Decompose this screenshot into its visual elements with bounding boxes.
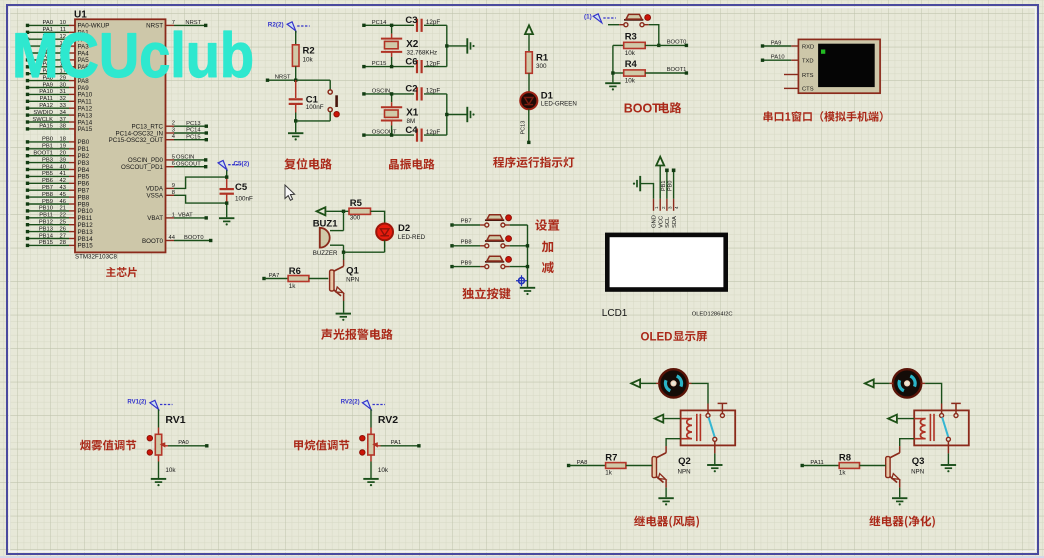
serial terminal window (virtual terminal) [798,39,880,93]
svg-text:R4: R4 [625,59,638,70]
svg-text:LED-GREEN: LED-GREEN [541,100,577,107]
wire arrow to motor [875,382,894,384]
potentiometer RV1 10k [147,409,186,478]
svg-text:45: 45 [60,192,66,198]
wire power to R5 with junction [326,210,349,213]
svg-text:33: 33 [60,103,66,109]
svg-text:BOOT0: BOOT0 [142,238,164,245]
relay R8 box [914,410,969,445]
power arrow (left) for relay coil [888,415,897,423]
svg-text:VSSA: VSSA [146,193,163,200]
svg-text:19: 19 [60,144,66,150]
capacitor C4 12pF (bottom) [405,125,446,142]
svg-text:CTS: CTS [802,87,814,93]
svg-text:X2: X2 [406,39,419,50]
svg-text:PB11: PB11 [39,213,53,219]
U1 left pins PA0-PA15: stubs, wires, net labels, pin numbers [26,20,110,133]
svg-text:SCL: SCL [665,216,671,228]
wire right vertical + junction [445,94,466,135]
wire VDDA pin 9 to C5 top node [174,177,227,188]
crystal X1 8M [381,92,419,137]
svg-text:46: 46 [60,199,66,205]
resistor R3 10k [613,31,688,57]
origin marker (blue crosshair) [516,275,527,286]
wire collector node row [342,251,385,254]
U1 left pins PB0-PB15: stubs, wires, net labels, pin numbers [26,137,93,250]
svg-text:PC13: PC13 [521,121,527,135]
svg-text:PA8: PA8 [577,460,588,466]
label BOOT电路 [624,101,682,115]
svg-text:PA11: PA11 [810,460,823,466]
svg-text:PB1: PB1 [42,144,53,150]
capacitor C6 12pF (bottom) [405,56,446,73]
svg-text:Q3: Q3 [912,456,925,467]
node NRST of reset circuit [266,75,330,82]
wire keys common bus [526,225,529,287]
svg-text:R8: R8 [839,452,851,463]
transistor Q1 NPN [330,260,360,302]
svg-text:PA9: PA9 [771,40,782,46]
svg-text:C5(2): C5(2) [234,161,250,168]
svg-text:OSCIN: OSCIN [176,155,194,161]
svg-text:NRST: NRST [275,75,291,81]
svg-text:PB15: PB15 [39,240,53,246]
ground below Q3 [892,498,907,505]
mouse cursor [285,185,295,200]
wire Q1 emitter down [343,301,345,313]
wire button bottom to C1 bottom [294,119,330,132]
svg-text:100nF: 100nF [235,196,253,203]
power arrow (left) of alarm circuit [317,207,326,215]
svg-text:PC14: PC14 [372,20,387,26]
svg-text:OLED12864I2C: OLED12864I2C [692,312,733,318]
ground of keys [520,288,535,295]
svg-text:300: 300 [350,214,361,221]
motor of Q3 relay [893,369,921,397]
svg-text:Q2: Q2 [678,456,691,467]
wire relay common contact to ground [714,441,716,464]
net label PC14 wire [362,20,414,27]
svg-text:Q1: Q1 [346,266,359,277]
svg-text:PA12: PA12 [39,103,53,109]
svg-text:R7: R7 [605,452,617,463]
resistor R5 300 [349,198,371,221]
svg-text:PC15: PC15 [186,134,201,140]
svg-text:2: 2 [661,206,666,209]
svg-text:LED-RED: LED-RED [398,234,426,241]
LED D2 LED-RED [376,223,425,241]
ground below C5 [219,218,234,225]
svg-text:39: 39 [60,157,66,163]
ground below Q1 [336,314,351,321]
svg-text:PB10: PB10 [39,206,53,212]
capacitor C2 12pF (top) [405,84,446,101]
svg-text:42: 42 [60,178,66,184]
wire VSSA pin 8 to C5 bottom node [174,195,227,203]
svg-text:VBAT: VBAT [147,215,163,222]
svg-text:C2: C2 [405,84,417,95]
label 独立按键 [462,288,510,300]
key button PB7 [450,215,527,227]
svg-text:1k: 1k [839,469,847,476]
svg-text:R5: R5 [350,198,363,209]
svg-text:D2: D2 [398,223,410,234]
label jiawan [294,440,349,451]
ground below relay switch [707,465,722,472]
motor of Q2 relay [659,369,687,397]
wire SDA net PB0 [668,169,676,199]
svg-text:PB5: PB5 [42,171,53,177]
label 晶振电路 [389,159,435,170]
svg-text:10k: 10k [378,467,389,474]
svg-text:PB8: PB8 [42,192,53,198]
svg-text:LCD1: LCD1 [602,308,628,319]
label 加 [542,241,553,253]
svg-text:PB7: PB7 [42,185,53,191]
svg-text:BOOT1: BOOT1 [667,67,687,73]
svg-text:26: 26 [60,226,66,232]
svg-text:C4: C4 [405,125,418,136]
svg-text:1k: 1k [605,469,613,476]
BOOT push button [608,14,651,26]
buzzer BUZ1 [313,211,344,257]
wire coil power [664,418,681,420]
svg-text:PA10: PA10 [771,55,785,61]
svg-text:RXD: RXD [802,44,814,50]
net label PC15 wire [362,61,414,68]
svg-text:VBAT: VBAT [178,213,193,219]
capacitor C3 12pF (top) [405,15,446,32]
wire Q2 emitter to ground [665,488,667,498]
svg-text:PB9: PB9 [461,260,472,266]
svg-text:STM32F103C8: STM32F103C8 [75,254,118,261]
svg-text:TXD: TXD [802,59,814,65]
svg-text:34: 34 [60,110,67,116]
svg-text:RTS: RTS [802,73,814,79]
label 串口1窗口（模拟手机端） [764,111,883,122]
ground of BOOT circuit [605,83,620,90]
U1 right pins: NRST, PC13-PC15, OSCIN/OSCOUT, VDDA/VSSA, VBAT, BOOT0 [109,20,213,245]
svg-text:U1: U1 [74,9,87,20]
relay switch contacts [940,403,961,441]
svg-text:10k: 10k [165,467,176,474]
svg-text:PB7: PB7 [461,219,472,225]
svg-text:SWCLK: SWCLK [32,117,53,123]
svg-text:PB0: PB0 [42,137,53,143]
svg-text:RV2(2): RV2(2) [341,400,360,406]
crystal X2 32.768KHz [381,24,437,69]
svg-text:SWDIO: SWDIO [33,110,53,116]
OLED display LCD1 body [602,233,733,319]
svg-text:PA15: PA15 [39,124,53,130]
wire wiper to net PA0 [168,440,209,447]
svg-text:PB9: PB9 [42,199,53,205]
svg-text:(1): (1) [584,14,592,21]
svg-text:PB14: PB14 [39,233,54,239]
svg-text:100nF: 100nF [306,104,324,111]
svg-text:BOOT0: BOOT0 [667,39,687,45]
svg-text:28: 28 [60,240,66,246]
svg-text:NPN: NPN [346,276,359,283]
OLED pins GND VCC SCL SDA [652,199,680,228]
svg-text:300: 300 [536,63,547,70]
resistor R1 300 [526,35,549,92]
transistor Q3 NPN [886,446,925,488]
op-chip U1 STM32F103C8 [74,9,166,260]
svg-text:12pF: 12pF [426,88,441,95]
svg-text:BOOT: BOOT [624,101,660,115]
ground (rotated right) [467,107,474,122]
relay coil [914,414,934,441]
svg-text:PA11: PA11 [40,96,53,102]
svg-text:10k: 10k [625,50,636,57]
ground below RV2 [363,479,378,486]
svg-text:PB4: PB4 [42,164,54,170]
ground below Q2 [658,498,673,505]
svg-text:4: 4 [674,206,679,209]
label 复位电路 [284,158,332,170]
svg-text:C3: C3 [405,15,417,26]
label jidianqi_j [869,515,935,527]
net label OSCOUT wire [362,130,414,137]
power arrow (left) for relay coil [655,415,664,423]
svg-text:21: 21 [60,206,66,212]
transistor Q2 NPN [652,446,691,488]
wire D1 to net PC13 [521,109,531,144]
wire right vertical + junction [445,25,466,66]
label OLED显示屏 [641,331,708,343]
wire motor to relay switch terminal [921,383,941,403]
wire left bus of BOOT divider [611,45,614,82]
wire Q3 emitter to ground [899,488,901,498]
svg-text:MCUclub: MCUclub [12,21,254,91]
resistor R7 1k with net PA8 [567,452,652,476]
svg-text:12pF: 12pF [426,129,441,136]
svg-text:PB1: PB1 [661,181,667,191]
svg-text:GND: GND [652,215,658,228]
svg-text:41: 41 [60,171,66,177]
svg-text:RV2: RV2 [378,414,398,426]
svg-text:20: 20 [60,151,66,157]
svg-text:38: 38 [60,124,66,130]
svg-text:RV1(2): RV1(2) [127,400,146,406]
label 声光报警电路 [321,329,393,340]
wire Q1 collector up [343,252,345,260]
label jidianqi_f [634,516,699,528]
svg-text:22: 22 [60,213,66,219]
svg-text:10k: 10k [625,77,636,84]
svg-text:PB8: PB8 [461,240,472,246]
svg-text:BUZ1: BUZ1 [313,219,339,230]
wire coil power [898,418,915,420]
label 设置 [535,219,559,231]
serial pins PA9/PA10/RTS/CTS [761,40,799,88]
resistor R2 10k [292,31,314,80]
ground (rotated right) [467,38,474,53]
svg-text:1: 1 [654,206,659,209]
svg-text:R2(2): R2(2) [268,21,284,28]
resistor R6 1k with net PA7 [262,266,328,290]
svg-text:OLED: OLED [641,331,673,343]
wire relay common contact to ground [947,441,949,464]
svg-text:32.768KHz: 32.768KHz [407,50,438,57]
svg-text:PB13: PB13 [39,226,53,232]
relay switch contacts [706,403,727,441]
svg-text:18: 18 [60,137,66,143]
wire R5 to D2 [371,211,385,224]
svg-text:OSCIN: OSCIN [372,88,390,94]
svg-text:RV1: RV1 [165,414,185,426]
ground below RV1 [151,479,166,486]
svg-text:40: 40 [60,164,66,170]
wire arrow to motor [641,382,660,384]
svg-text:PC15: PC15 [372,61,387,67]
capacitor C5 100nF with probe C5(2) and ground [220,169,254,218]
svg-text:PB12: PB12 [39,220,53,226]
wire D2 bottom [384,240,386,252]
reset push button [328,80,339,121]
svg-text:R1: R1 [536,53,549,64]
relay R7 box [681,410,736,445]
svg-text:1k: 1k [289,283,297,290]
svg-text:PC14: PC14 [186,128,201,134]
wire motor to relay switch terminal [688,383,708,403]
label 主芯片 [106,267,137,277]
svg-text:8M: 8M [407,118,416,125]
svg-text:C6: C6 [405,56,417,67]
svg-text:X1: X1 [406,108,419,119]
svg-text:BOOT1: BOOT1 [33,151,53,157]
svg-text:PB0: PB0 [668,181,674,191]
key button PB8 [450,236,527,248]
svg-text:37: 37 [60,117,66,123]
relay coil [681,414,701,441]
power arrow (left) for motor [865,379,874,387]
svg-text:NPN: NPN [911,469,924,476]
svg-text:PA15: PA15 [78,126,93,133]
resistor R4 10k [613,59,688,85]
resistor R8 1k with net PA11 [801,452,886,476]
svg-text:12pF: 12pF [426,60,441,67]
capacitor C1 100nF [289,80,324,121]
svg-text:OSCOUT_PD1: OSCOUT_PD1 [121,164,164,171]
svg-text:PB15: PB15 [78,243,94,250]
wire SCL net PB1 [661,169,669,199]
ground below relay switch [941,465,956,472]
svg-text:PC15-OSC32_OUT: PC15-OSC32_OUT [109,137,164,144]
potentiometer RV2 10k [360,409,399,478]
svg-text:43: 43 [60,185,66,191]
svg-text:PB3: PB3 [42,157,53,163]
svg-text:R6: R6 [289,266,301,277]
svg-text:PB6: PB6 [42,178,53,184]
svg-text:OSCOUT: OSCOUT [176,161,201,167]
ground (rotated left) for OLED GND pin [641,184,654,199]
svg-text:SDA: SDA [672,216,678,228]
svg-text:32: 32 [60,96,66,102]
label 减 [542,261,554,273]
svg-text:3: 3 [668,206,673,209]
svg-text:PA0: PA0 [178,440,189,446]
wire button to BOOT0 node [649,25,661,47]
wire coil to Q3 collector [900,439,915,447]
key button PB9 [450,256,527,268]
svg-text:VCC: VCC [658,216,664,228]
label 程序运行指示灯 [493,157,574,168]
LED D1 LED-GREEN [520,91,577,110]
net label OSCIN wire [362,88,414,95]
svg-text:R2: R2 [303,46,315,57]
svg-text:C5: C5 [235,182,248,193]
ground of reset circuit [288,133,303,140]
svg-text:PA1: PA1 [391,440,402,446]
svg-text:R3: R3 [625,31,637,42]
svg-text:PA7: PA7 [269,273,280,279]
svg-text:12pF: 12pF [426,19,441,26]
power arrow for OLED VCC pin [659,166,661,199]
svg-text:BUZZER: BUZZER [313,250,338,257]
svg-text:NPN: NPN [678,469,691,476]
svg-text:27: 27 [60,233,66,239]
svg-text:BOOT0: BOOT0 [184,235,204,241]
power arrow (left) for motor [631,379,640,387]
svg-text:25: 25 [60,220,66,226]
svg-text:PC13: PC13 [186,121,201,127]
label yanwu [80,440,136,451]
power arrow above R1 [525,25,533,34]
wire wiper to net PA1 [381,440,421,447]
svg-text:10k: 10k [303,57,314,64]
wire coil to Q2 collector [666,439,681,447]
